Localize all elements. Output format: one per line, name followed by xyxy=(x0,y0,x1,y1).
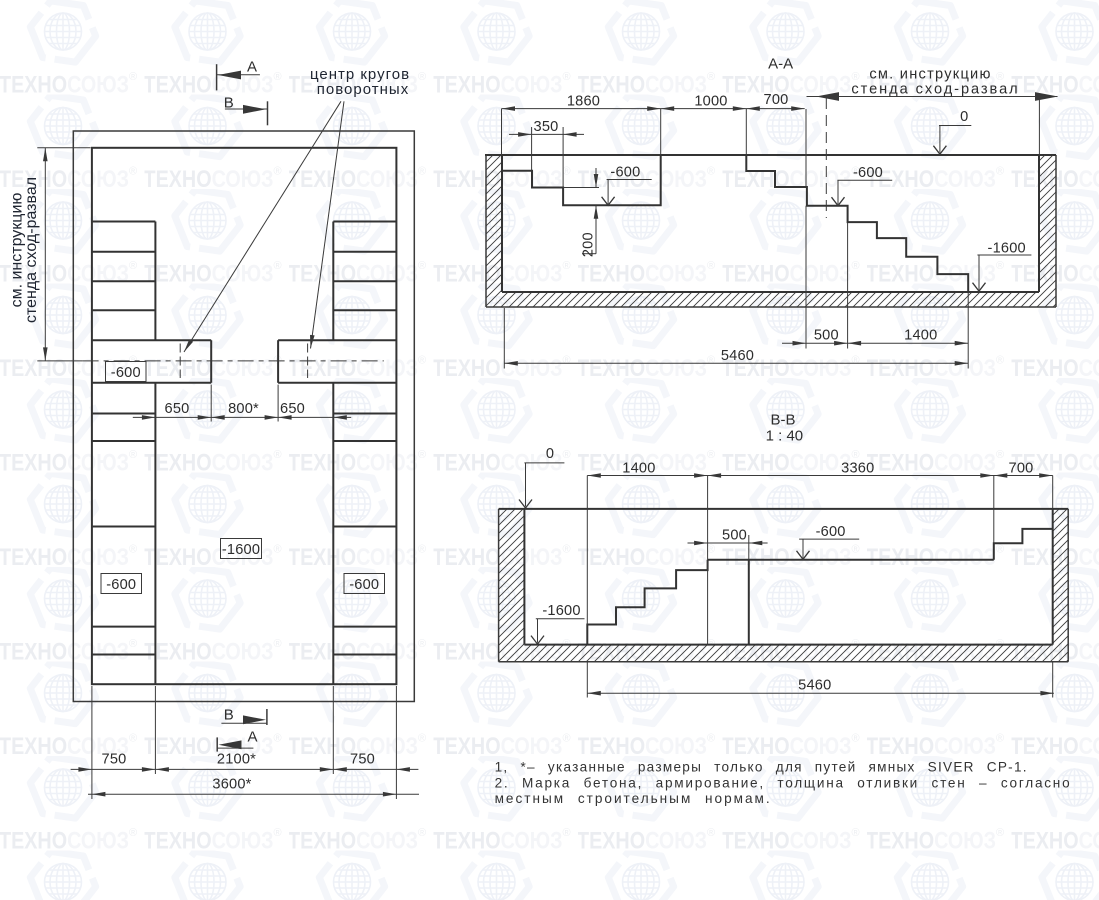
A-A extension lines for 350 dim xyxy=(531,127,533,171)
svg-text:-1600: -1600 xyxy=(542,603,580,619)
B-B right wall hatched xyxy=(1053,509,1069,662)
plan right -600 platform xyxy=(278,339,396,341)
A-A ledge B extension for 200 dim xyxy=(563,187,599,189)
plan left ladder side edge xyxy=(154,222,156,341)
svg-text:1 : 40: 1 : 40 xyxy=(766,428,804,445)
A-A right wall hatched xyxy=(1039,155,1056,307)
plan dimension 650 right xyxy=(333,415,347,420)
svg-text:местным строительным нормам.: местным строительным нормам. xyxy=(495,791,772,806)
B-B extension line right wall xyxy=(1052,476,1054,509)
B-B ground surface line xyxy=(499,508,1069,510)
A-A left recess stepped profile xyxy=(502,155,661,205)
svg-text:3360: 3360 xyxy=(841,460,874,476)
plan leader to left circle center xyxy=(184,101,341,352)
B-B long extension line x707 xyxy=(707,476,709,571)
plan left -600 platform xyxy=(92,339,211,341)
svg-text:200: 200 xyxy=(581,232,597,257)
B-B extension line x993 xyxy=(993,476,995,544)
B-B dimension 5460 xyxy=(587,692,1054,694)
svg-text:-600: -600 xyxy=(349,577,379,593)
plan dimension 750 left xyxy=(71,768,419,770)
A-A dimension 350 xyxy=(509,133,584,135)
svg-text:750: 750 xyxy=(102,752,127,768)
svg-text:650: 650 xyxy=(280,401,305,417)
A-A dimension 1400 below slab xyxy=(955,341,969,346)
A-A ground surface line xyxy=(485,154,1056,156)
svg-text:стенда сход-развал: стенда сход-развал xyxy=(23,177,40,323)
svg-text:-600: -600 xyxy=(610,165,640,181)
plan turn circle center mark right xyxy=(307,344,309,379)
svg-text:650: 650 xyxy=(165,401,190,417)
svg-text:-1600: -1600 xyxy=(222,542,260,558)
plan right ladder rungs xyxy=(333,221,396,223)
plan vertical dimension line see-instruction xyxy=(44,148,46,361)
svg-text:-600: -600 xyxy=(816,524,846,540)
B-B -600 platform line xyxy=(708,559,994,561)
svg-text:поворотных: поворотных xyxy=(317,81,409,98)
A-A see-instruction dimension line xyxy=(807,96,1058,98)
B-B top dimension line 1400-3360-700 xyxy=(587,475,1052,477)
svg-text:2. Марка бетона, армирование,: 2. Марка бетона, армирование, толщина от… xyxy=(495,775,1072,790)
svg-text:B-B: B-B xyxy=(770,412,795,429)
svg-text:1000: 1000 xyxy=(694,94,727,110)
A-A extension line x847 down to 500 dim xyxy=(847,222,849,348)
svg-text:A: A xyxy=(247,729,257,746)
plan left ladder rungs xyxy=(92,221,155,223)
B-B long extension line x587 xyxy=(586,476,588,625)
svg-text:1860: 1860 xyxy=(567,94,600,110)
svg-text:A-A: A-A xyxy=(768,56,793,73)
svg-text:750: 750 xyxy=(350,752,375,768)
A-A extension line right wall for see-instruction dim xyxy=(1038,97,1040,156)
B-B left staircase profile xyxy=(587,560,707,645)
plan top reference tick xyxy=(37,147,90,149)
plan dimension 750 right xyxy=(396,767,410,772)
A-A extension line below slab left xyxy=(503,308,505,369)
plan inner pit rectangle xyxy=(92,148,397,684)
A-A top dimension line 1860-1000-700 xyxy=(502,108,805,110)
svg-text:2100*: 2100* xyxy=(217,752,256,768)
plan right ladder side edge xyxy=(332,222,334,341)
A-A dimension 200 vertical xyxy=(595,168,597,188)
plan leader to right circle center xyxy=(311,101,345,348)
A-A dimension 5460 xyxy=(504,362,968,364)
A-A extension line x660 xyxy=(660,109,662,155)
svg-text:1, *– указанные размеры только: 1, *– указанные размеры только для путей… xyxy=(495,760,1028,775)
svg-text:1400: 1400 xyxy=(622,460,655,476)
plan label -600 lower-right boxed xyxy=(344,574,385,594)
svg-text:-600: -600 xyxy=(106,577,136,593)
plan label -600 lower-left boxed xyxy=(101,574,142,594)
B-B bottom slab hatched xyxy=(524,645,1052,662)
svg-text:5460: 5460 xyxy=(798,678,831,694)
svg-text:B: B xyxy=(224,707,234,724)
svg-text:5460: 5460 xyxy=(721,348,754,364)
A-A dimension 500 below slab xyxy=(782,342,968,344)
plan dashed centerline of turn circles xyxy=(83,360,384,362)
svg-text:0: 0 xyxy=(546,446,554,462)
plan label -1600 boxed xyxy=(221,539,262,559)
plan dimension 650 left of 650-800-650 xyxy=(210,385,212,422)
plan label -600 mid-left boxed xyxy=(106,362,147,382)
plan dimension 800* center xyxy=(277,385,279,422)
svg-text:A: A xyxy=(247,59,257,76)
A-A left wall hatched xyxy=(486,155,502,307)
svg-text:1400: 1400 xyxy=(904,328,937,344)
svg-text:500: 500 xyxy=(814,328,839,344)
A-A long extension line x806 xyxy=(805,109,807,187)
svg-text:-600: -600 xyxy=(111,365,141,381)
A-A dashed boundary line xyxy=(825,98,827,218)
svg-text:стенда сход-развал: стенда сход-развал xyxy=(851,82,1019,98)
svg-text:700: 700 xyxy=(764,92,789,108)
B-B dimension 500 xyxy=(688,542,768,544)
plan section marker A top xyxy=(216,64,218,90)
plan turn circle center mark left xyxy=(179,344,181,379)
svg-text:350: 350 xyxy=(534,119,559,135)
plan bottom reference tick xyxy=(37,360,82,362)
svg-text:-1600: -1600 xyxy=(988,241,1026,257)
svg-text:0: 0 xyxy=(960,109,968,125)
A-A bottom slab hatched xyxy=(502,292,1039,307)
A-A extension line x746 xyxy=(745,109,747,155)
plan dimension 3600* xyxy=(88,793,419,795)
plan bottom dim extension lines xyxy=(91,686,93,799)
svg-text:-600: -600 xyxy=(853,165,883,181)
svg-text:см. инструкцию: см. инструкцию xyxy=(869,66,991,82)
A-A extension line at wall inner edge xyxy=(501,109,503,155)
B-B right steps profile xyxy=(994,529,1053,560)
A-A central recess and staircase profile xyxy=(746,155,968,292)
svg-text:700: 700 xyxy=(1009,460,1034,476)
B-B left wall hatched xyxy=(499,509,525,662)
svg-text:500: 500 xyxy=(722,528,747,544)
A-A extension line x968 down to 5460 dim xyxy=(967,292,969,369)
svg-text:3600*: 3600* xyxy=(212,777,251,793)
B-B niche wall edge xyxy=(748,535,750,560)
plan dimension 2100* xyxy=(155,767,169,772)
plan outer wall rectangle xyxy=(73,131,414,702)
svg-text:800*: 800* xyxy=(228,401,259,417)
